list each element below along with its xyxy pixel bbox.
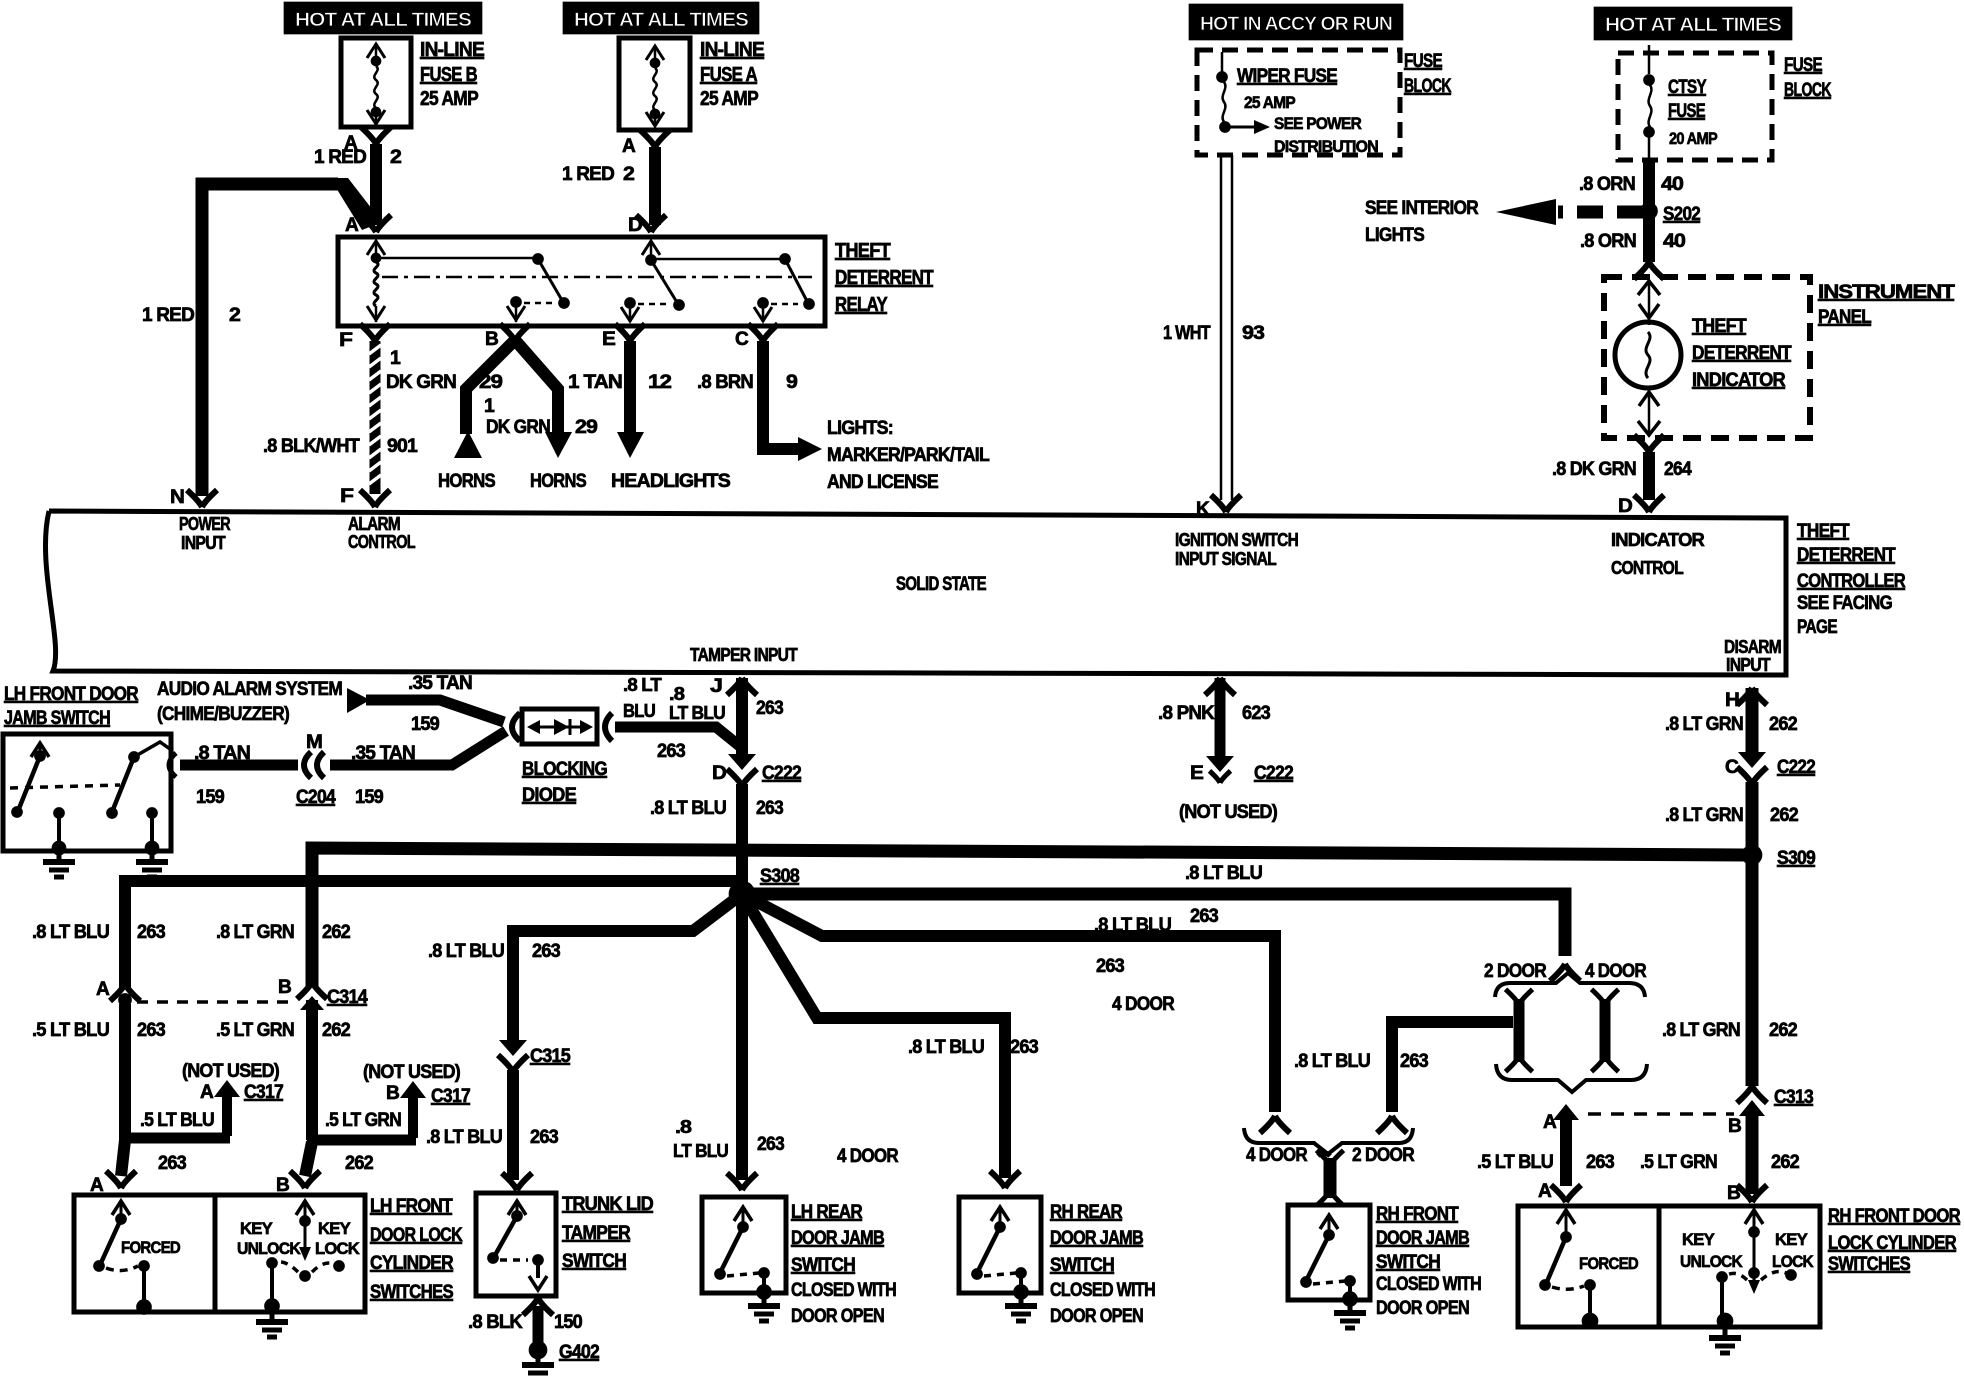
connector at controller pin J [727,678,757,695]
connector at LH rear switch [727,1173,757,1190]
svg-text:.8 LT BLU: .8 LT BLU [32,922,109,943]
wire .8 LT BLU 263 S308 to C315/trunk [513,894,742,1044]
svg-text:.8 LT BLU: .8 LT BLU [650,798,726,819]
label 1 RED [314,147,366,168]
svg-text:TAMPER: TAMPER [562,1223,631,1244]
svg-text:LH FRONT: LH FRONT [370,1196,453,1217]
connector at controller pin H [1737,688,1767,705]
label (NOT USED) [1179,802,1277,823]
connector at trunk switch [502,1173,532,1190]
svg-text:A: A [96,979,110,1000]
label 1 RED [142,305,194,326]
label RH REAR DOOR JAMB SWITCH CLOSED WITH DOOR OPEN [1050,1202,1155,1327]
wire .8 LT BLU 263 S308 down to LH rear [736,894,748,1180]
label LH FRONT DOOR LOCK CYLINDER SWITCHES [370,1196,463,1303]
label 2 DOOR [1484,961,1547,982]
svg-text:1: 1 [390,348,401,369]
label .8 LT BLU 263 (trunk lower) [426,1127,558,1148]
label .8 BLK 150 [468,1312,582,1333]
svg-text:DOOR OPEN: DOOR OPEN [1376,1298,1469,1319]
svg-text:C313: C313 [1774,1087,1813,1108]
arrow see power distribution [1229,120,1270,134]
svg-text:4 DOOR: 4 DOOR [1246,1145,1308,1166]
RH front door lock cylinder switches box [1518,1206,1820,1327]
pin C label [735,329,749,350]
connector at fuse B pin A [361,127,391,144]
connector C315 [498,1040,528,1072]
label TAMPER INPUT [690,645,798,665]
pin E label [602,329,615,350]
svg-text:UNLOCK: UNLOCK [237,1239,301,1258]
ctsy fuse 20A [1644,45,1655,160]
svg-text:40: 40 [1663,231,1685,252]
power banner HOT IN ACCY OR RUN [1189,4,1403,40]
label FORCED (RH) [1579,1254,1638,1273]
pin M label [306,732,322,753]
label 4 DOOR [1585,961,1647,982]
svg-text:.8 LT: .8 LT [623,675,662,695]
label .8 LT BLU 263 (trunk upper) [428,941,560,962]
svg-text:KEY: KEY [318,1219,351,1238]
wire .8 LT BLU 263 S308 to C314 pin A [125,881,742,988]
label C317 (right) [431,1086,470,1107]
wire .8 LT GRN 262 S309 to C313 [1746,860,1759,1086]
svg-text:S309: S309 [1777,848,1815,869]
svg-text:E: E [1190,763,1203,784]
svg-text:DISTRIBUTION: DISTRIBUTION [1274,137,1378,156]
label 1 WHT [1163,323,1211,344]
svg-text:HOT AT ALL TIMES: HOT AT ALL TIMES [574,10,748,31]
svg-text:A: A [200,1082,214,1103]
ground (LH lock cylinder) [256,1313,288,1337]
wire 1 WHT 93 ignition signal (double line) [1221,155,1232,500]
wire 1 RED 2 from fuse A to relay pin D [649,147,661,225]
RH rear door jamb switch contacts [972,1207,1029,1300]
pin B label [485,329,498,350]
svg-text:SWITCH: SWITCH [791,1255,855,1276]
pin F label bottom [340,486,353,507]
svg-text:DOOR OPEN: DOOR OPEN [1050,1306,1143,1327]
svg-text:LH FRONT DOOR: LH FRONT DOOR [4,684,139,705]
svg-text:.8 DK GRN: .8 DK GRN [1552,459,1636,480]
pin F label [339,330,352,351]
svg-text:263: 263 [1190,906,1218,927]
label HORNS (right) [530,471,586,492]
in-line fuse B 25A [341,38,411,127]
svg-text:LT BLU: LT BLU [673,1141,728,1161]
connector at relay pin F [360,324,390,341]
splice S308 [729,881,755,907]
connector C204 [304,752,324,778]
pin D label [628,215,642,236]
label 1 DK GRN 29 (right horn) [484,396,597,438]
wire .8 LT BLU 263 S308 to 4-door connector [742,894,1275,1112]
label RH FRONT DOOR JAMB SWITCH CLOSED WITH DOOR OPEN [1376,1204,1481,1319]
svg-text:CONTROL: CONTROL [348,532,416,552]
relay contact 2 (pin E) [621,241,781,322]
wire .8 LT GRN 262 to S309 [1746,782,1759,850]
svg-text:.8 LT GRN: .8 LT GRN [1665,714,1743,735]
svg-text:25 AMP: 25 AMP [1244,93,1295,112]
wire end flare (2 door) [1377,1116,1407,1133]
svg-text:263: 263 [530,1127,558,1148]
svg-text:LIGHTS:: LIGHTS: [827,418,893,439]
label ckt 263 (4-door branch) [1096,956,1124,977]
svg-text:LIGHTS: LIGHTS [1365,225,1424,246]
svg-text:CLOSED WITH: CLOSED WITH [1050,1280,1155,1301]
svg-text:2 DOOR: 2 DOOR [1352,1145,1415,1166]
svg-text:(NOT USED): (NOT USED) [1179,802,1277,823]
wire .8 LT GRN 262 disarm upper [1746,688,1759,752]
svg-text:.8 LT BLU: .8 LT BLU [426,1127,502,1148]
label FORCED [121,1238,180,1257]
svg-text:INDICATOR: INDICATOR [1692,370,1786,391]
label .8 BRN 9 [697,372,797,393]
dashed link to C313 [1588,1112,1734,1116]
svg-text:RH FRONT DOOR: RH FRONT DOOR [1828,1206,1961,1227]
svg-text:4 DOOR: 4 DOOR [1112,994,1175,1015]
connector at lock cylinder pin B [290,1171,320,1188]
svg-text:CYLINDER: CYLINDER [370,1253,454,1274]
LH lock cylinder KEY switch contacts [265,1201,345,1314]
connector at relay pin D [636,215,666,232]
svg-text:2: 2 [623,164,634,185]
wire .5 LT BLU 263 C314A down [119,1004,131,1140]
wire 1 TAN 12 headlight feed [624,341,636,434]
svg-text:CONTROLLER: CONTROLLER [1797,571,1906,592]
svg-text:SOLID STATE: SOLID STATE [896,574,986,595]
label .35 TAN (chime) [408,673,472,694]
wire to lock cylinder A [121,1140,125,1176]
connector at controller pin N [187,490,217,507]
svg-text:262: 262 [1769,714,1797,735]
svg-text:LOCK CYLINDER: LOCK CYLINDER [1828,1233,1957,1254]
label G402 [559,1342,599,1363]
wire .8 DK GRN 264 [1634,435,1664,500]
svg-text:12: 12 [648,372,671,393]
svg-text:D: D [1618,496,1632,517]
LH rear door jamb switch contacts [715,1207,772,1300]
pin B label (lock cyl) [276,1175,289,1196]
label .5 LT GRN 262 (mid) [216,1020,350,1041]
RH lock cylinder KEY switch contacts [1717,1210,1797,1329]
label WIPER FUSE [1237,66,1337,87]
svg-text:WIPER FUSE: WIPER FUSE [1237,66,1337,87]
svg-text:901: 901 [387,436,418,457]
power banner HOT AT ALL TIMES (fuse B feed) [284,2,482,34]
svg-text:.8 TAN: .8 TAN [194,743,250,764]
svg-text:FUSE: FUSE [1404,51,1442,72]
label (NOT USED) C317 A [182,1061,279,1082]
label 2 DOOR (lower) [1352,1145,1415,1166]
pin A of fuse A [622,136,636,157]
svg-text:C317: C317 [244,1082,283,1103]
svg-text:BLOCK: BLOCK [1784,80,1832,101]
svg-text:HORNS: HORNS [530,471,586,492]
RH front door jamb switch contacts [1301,1215,1358,1307]
svg-text:.5 LT BLU: .5 LT BLU [140,1110,214,1131]
terminal arrow to headlights [617,432,644,458]
pin K label [1196,499,1210,520]
splice S202 [1641,203,1658,220]
label ckt 2 [229,305,240,326]
label C222 (pin C) [1777,757,1815,778]
label .8 LT BLU 263 (RH rear) [908,1037,1038,1058]
svg-text:.8 ORN: .8 ORN [1579,174,1635,195]
svg-text:C: C [735,329,749,350]
label C313 [1774,1087,1813,1108]
label .8 DK GRN 264 [1552,459,1692,480]
connector A (2/4-door) [1553,1104,1579,1186]
label RH FRONT DOOR LOCK CYLINDER SWITCHES [1828,1206,1961,1275]
svg-text:(NOT USED): (NOT USED) [363,1062,460,1083]
label ckt 263 (diode output) [657,741,685,762]
label IN-LINE FUSE A 25 AMP [700,39,764,110]
svg-text:CLOSED WITH: CLOSED WITH [1376,1274,1481,1295]
label C222 [762,763,801,784]
svg-text:DK GRN: DK GRN [386,372,456,393]
svg-text:HOT IN ACCY OR RUN: HOT IN ACCY OR RUN [1200,14,1392,35]
ground (RH lock cylinder) [1709,1329,1741,1353]
branch to C317 A [120,1133,230,1144]
svg-text:263: 263 [532,941,560,962]
wire .8 LT BLU 263 diode to tamper wire [605,713,742,748]
label ckt 159 (chime) [411,714,439,735]
pin D label (controller) [1618,496,1632,517]
label KEY LOCK [315,1219,360,1258]
svg-text:.8 PNK: .8 PNK [1158,703,1215,724]
blocking diode box [512,709,597,744]
svg-text:S202: S202 [1663,204,1700,225]
label THEFT DETERRENT CONTROLLER SEE FACING PAGE [1797,521,1906,638]
wire 1 DK GRN 29 horn feed right branch [515,340,558,434]
label HORNS (left) [438,471,495,492]
label S308 [760,866,799,887]
connector at controller pin K [1211,495,1241,512]
wire end flare (4 door) [1260,1116,1290,1133]
svg-text:THEFT: THEFT [1692,316,1747,337]
label .35 TAN [351,743,415,764]
svg-text:HOT AT ALL TIMES: HOT AT ALL TIMES [295,10,471,31]
svg-text:LT BLU: LT BLU [669,703,725,723]
svg-text:IGNITION SWITCH: IGNITION SWITCH [1175,530,1298,550]
LH front door jamb switch contacts [10,742,170,855]
label .8 ORN 40 (upper) [1579,174,1683,195]
label LH REAR DOOR JAMB SWITCH CLOSED WITH DOOR OPEN [791,1202,896,1327]
svg-text:THEFT: THEFT [1797,521,1850,542]
ground (RH rear jamb) [1005,1297,1037,1321]
pin E label (C222) [1190,763,1203,784]
svg-text:DISARM: DISARM [1724,637,1781,657]
svg-text:.8 BRN: .8 BRN [697,372,753,393]
svg-text:.8 LT BLU: .8 LT BLU [428,941,504,962]
svg-text:DETERRENT: DETERRENT [1692,343,1792,364]
label .5 LT GRN (branch) [325,1110,401,1131]
relay contact 3 (pin C) [754,254,815,323]
svg-text:C204: C204 [296,787,336,808]
svg-text:25 AMP: 25 AMP [420,88,478,110]
label IN-LINE FUSE B 25 AMP [420,39,484,110]
label SEE POWER DISTRIBUTION [1274,114,1378,156]
pin A label (C317) [200,1082,214,1103]
svg-text:263: 263 [757,1134,784,1155]
svg-text:MARKER/PARK/TAIL: MARKER/PARK/TAIL [827,445,990,466]
brace under connectors [1496,1064,1647,1092]
connector at RH lock cylinder pin A [1551,1185,1581,1202]
wire .8 LT GRN 262 bus S309 to C314 pin B [312,848,1745,986]
label SOLID STATE [896,574,986,595]
wire .5 LT GRN 262 C314B down [306,1000,318,1140]
svg-text:HORNS: HORNS [438,471,495,492]
trunk lid tamper switch contacts [488,1200,548,1290]
label LIGHTS: MARKER/PARK/TAIL AND LICENSE [827,418,990,493]
label 20 AMP [1669,129,1717,148]
svg-text:INPUT: INPUT [1726,655,1771,675]
label ckt 262 (branch) [345,1153,373,1174]
svg-text:.35 TAN: .35 TAN [408,673,472,694]
svg-text:263: 263 [756,698,783,719]
label 1 DK GRN 29 [386,348,502,393]
svg-text:2: 2 [229,305,240,326]
wire .8 LT BLU 263 C315 to trunk switch [507,1070,519,1180]
svg-text:CLOSED WITH: CLOSED WITH [791,1280,896,1301]
label .5 LT BLU (branch) [140,1110,214,1131]
label .8 LT BLU 263 (below C222) [650,798,783,819]
svg-text:FORCED: FORCED [1579,1254,1638,1273]
brace over connectors [1495,973,1645,997]
svg-text:N: N [170,487,184,508]
svg-text:.8 LT BLU: .8 LT BLU [1094,915,1171,936]
svg-text:A: A [345,215,359,236]
svg-text:264: 264 [1664,459,1692,480]
power banner HOT AT ALL TIMES (fuse A feed) [563,2,759,34]
svg-text:159: 159 [411,714,439,735]
svg-text:FUSE: FUSE [1668,101,1705,122]
label C204 [296,787,336,808]
connector column to RH front jamb switch [1317,1150,1344,1205]
svg-text:DOOR JAMB: DOOR JAMB [791,1228,884,1249]
connector C222 pin D [727,754,757,786]
svg-text:KEY: KEY [1682,1230,1715,1249]
svg-text:BLU: BLU [623,701,655,721]
svg-text:G402: G402 [559,1342,599,1363]
svg-text:C222: C222 [1254,763,1293,784]
svg-text:40: 40 [1661,174,1683,195]
label .8 LT GRN 262 (S309 mid) [1662,1020,1797,1041]
svg-text:29: 29 [479,372,502,393]
connector at relay pin B [500,324,530,341]
svg-text:2: 2 [390,147,401,168]
svg-text:B: B [1728,1116,1741,1137]
svg-text:263: 263 [137,1020,165,1041]
svg-text:4 DOOR: 4 DOOR [837,1146,899,1167]
label KEY LOCK (RH) [1772,1230,1814,1271]
wire 1 RED 2 from fuse B to relay pin A [370,144,382,225]
svg-text:TRUNK LID: TRUNK LID [562,1194,653,1215]
connector C222 pin E [1206,756,1234,783]
label .8 BLK/WHT [263,436,360,457]
svg-text:4 DOOR: 4 DOOR [1585,961,1647,982]
svg-text:.8 LT BLU: .8 LT BLU [1294,1051,1370,1072]
svg-text:A: A [1538,1181,1552,1202]
svg-text:.5 LT GRN: .5 LT GRN [216,1020,294,1041]
pin A label (C314) [96,979,110,1000]
connector at RH lock cylinder pin B [1737,1185,1767,1202]
label AUDIO ALARM SYSTEM (CHIME/BUZZER) [157,679,342,725]
RH front door jamb switch box [1288,1205,1370,1300]
wiper fuse 25A [1217,52,1231,133]
label THEFT DETERRENT INDICATOR [1692,316,1792,391]
svg-text:.8 BLK: .8 BLK [468,1312,523,1333]
label BLOCKING DIODE [522,759,607,806]
svg-text:1: 1 [484,396,495,417]
wire 2-door connector to flare [1392,1022,1513,1112]
wire 1 RED 2 power input feed [202,178,382,496]
label .8 LT BLU 263 (2-door) [1294,1051,1428,1072]
svg-text:(NOT USED): (NOT USED) [182,1061,279,1082]
label .8 LT BLU (right of J) [669,684,725,723]
wire .8 BRN 9 exterior lights feed [763,341,800,449]
svg-text:J: J [710,676,722,697]
svg-text:.8 LT GRN: .8 LT GRN [1665,805,1743,826]
svg-text:UNLOCK: UNLOCK [1680,1252,1743,1271]
label .8 LT BLU (4-door branch) [1094,915,1171,936]
svg-text:159: 159 [355,787,383,808]
connector column (2 door) [1506,989,1533,1071]
connector at RH rear switch [990,1171,1020,1188]
svg-text:CONTROL: CONTROL [1611,558,1684,578]
label FUSE BLOCK (wiper) [1404,51,1452,97]
svg-text:LOCK: LOCK [315,1239,360,1258]
svg-text:KEY: KEY [1775,1230,1808,1249]
label CTSY FUSE [1668,77,1707,122]
svg-text:.8 LT GRN: .8 LT GRN [216,922,294,943]
svg-text:262: 262 [322,1020,350,1041]
label LH FRONT DOOR JAMB SWITCH [4,684,139,729]
svg-text:FORCED: FORCED [121,1238,180,1257]
svg-text:SWITCH: SWITCH [1376,1252,1440,1273]
label THEFT DETERRENT RELAY [835,240,933,316]
label HEADLIGHTS [611,471,730,492]
svg-text:HOT AT ALL TIMES: HOT AT ALL TIMES [1605,15,1781,36]
brace 4 DOOR / 2 DOOR (lower group) [1244,1128,1413,1154]
svg-text:THEFT: THEFT [835,240,891,262]
pin H label [1725,690,1739,711]
wire .8 ORN 40 upper [1643,160,1655,205]
svg-text:SWITCH: SWITCH [1050,1255,1114,1276]
instrument panel box [1604,277,1810,438]
label .8 TAN [194,743,250,764]
label ckt 93 [1242,323,1264,344]
label .8 ORN 40 (lower) [1580,231,1685,252]
connector C313 [1737,1086,1767,1116]
svg-text:LOCK: LOCK [1772,1252,1814,1271]
label DISARM INPUT [1724,637,1781,675]
svg-text:S308: S308 [760,866,799,887]
LH lock cylinder FORCED switch contacts [94,1201,152,1315]
svg-text:C317: C317 [431,1086,470,1107]
label .8 LT BLU (left col) [32,922,109,943]
pin B label (C317) [386,1083,399,1104]
connector C317 pin B (not used) [400,1081,426,1138]
svg-text:C222: C222 [1777,757,1815,778]
svg-text:KEY: KEY [240,1219,273,1238]
connector hook (wire end) [1550,964,1580,981]
svg-text:20 AMP: 20 AMP [1669,129,1717,148]
label ckt 2 [623,164,634,185]
svg-text:263: 263 [1586,1152,1614,1173]
svg-text:262: 262 [1770,805,1798,826]
